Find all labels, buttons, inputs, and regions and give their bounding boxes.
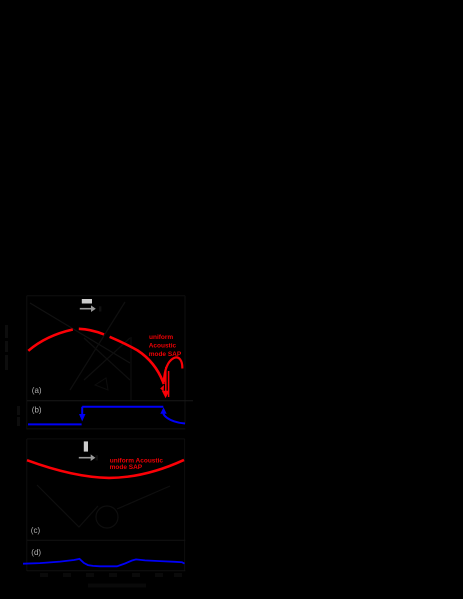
fiber outline panel (c) top and sides — [27, 439, 185, 571]
red text block (c): uniform Acoustic / mode SAP — [110, 458, 164, 471]
svg-text:uniform: uniform — [149, 334, 173, 341]
panel c/d divider line — [27, 539, 185, 541]
red curl hook at arc end (a) — [164, 357, 183, 382]
faint N mark right of arrow — [99, 306, 101, 311]
faint H mark left of text (c) — [96, 455, 98, 460]
panel a/b divider line — [27, 400, 193, 402]
CW pump icon arrow (middle) — [79, 454, 96, 461]
svg-text:(c): (c) — [31, 526, 41, 535]
svg-text:(d): (d) — [31, 548, 41, 557]
X ray pair center (a) — [84, 338, 130, 380]
pump pulse icon bar (top) — [82, 299, 92, 304]
red SAP hairpin vertical lines (a) — [166, 367, 169, 397]
blue downward arrowhead on rising step (b) — [79, 414, 86, 421]
ray diagonal up-right (a) — [70, 302, 125, 390]
red shallow U curve (c) — [27, 460, 184, 478]
svg-text:mode SAP: mode SAP — [149, 351, 182, 358]
axis tick labels row (d) — [40, 573, 182, 577]
left rotated axis label (a) — [5, 325, 8, 370]
red small arrow flare at arc terminus (a) — [160, 385, 164, 392]
blue curve (d) — [23, 559, 185, 566]
x-axis title (d) — [88, 584, 146, 588]
small triangle marks below apex (a) — [95, 378, 108, 390]
svg-text:mode SAP: mode SAP — [110, 464, 143, 471]
CW pump icon bar (middle) — [84, 441, 88, 451]
blue step curve (b) — [28, 407, 185, 425]
svg-text:(b): (b) — [32, 405, 42, 414]
svg-text:Acoustic: Acoustic — [149, 343, 177, 350]
red trajectory arc (a) with gaps — [28, 329, 164, 384]
ray diagonal crossing arc apex (a) — [30, 303, 130, 363]
scattering circle (c) — [96, 506, 118, 528]
svg-text:(a): (a) — [32, 386, 42, 395]
fiber outline panel (a) — [27, 296, 185, 430]
red text block (a): uniform / Acoustic / mode SAP — [149, 334, 182, 358]
scattering rays V-left (c) — [37, 485, 98, 527]
blue upward arrowhead on falling step (b) — [160, 407, 166, 413]
panel b bottom axis — [27, 428, 185, 430]
scattering rays up-right (c) — [117, 486, 170, 509]
panel d bottom axis — [27, 570, 185, 572]
pump pulse icon arrow (top) — [80, 305, 96, 312]
red downward arrowhead at hairpin bottom (a) — [162, 391, 170, 398]
left rotated axis label (b) — [17, 406, 20, 426]
vertical dashed axis (a) — [130, 337, 132, 400]
